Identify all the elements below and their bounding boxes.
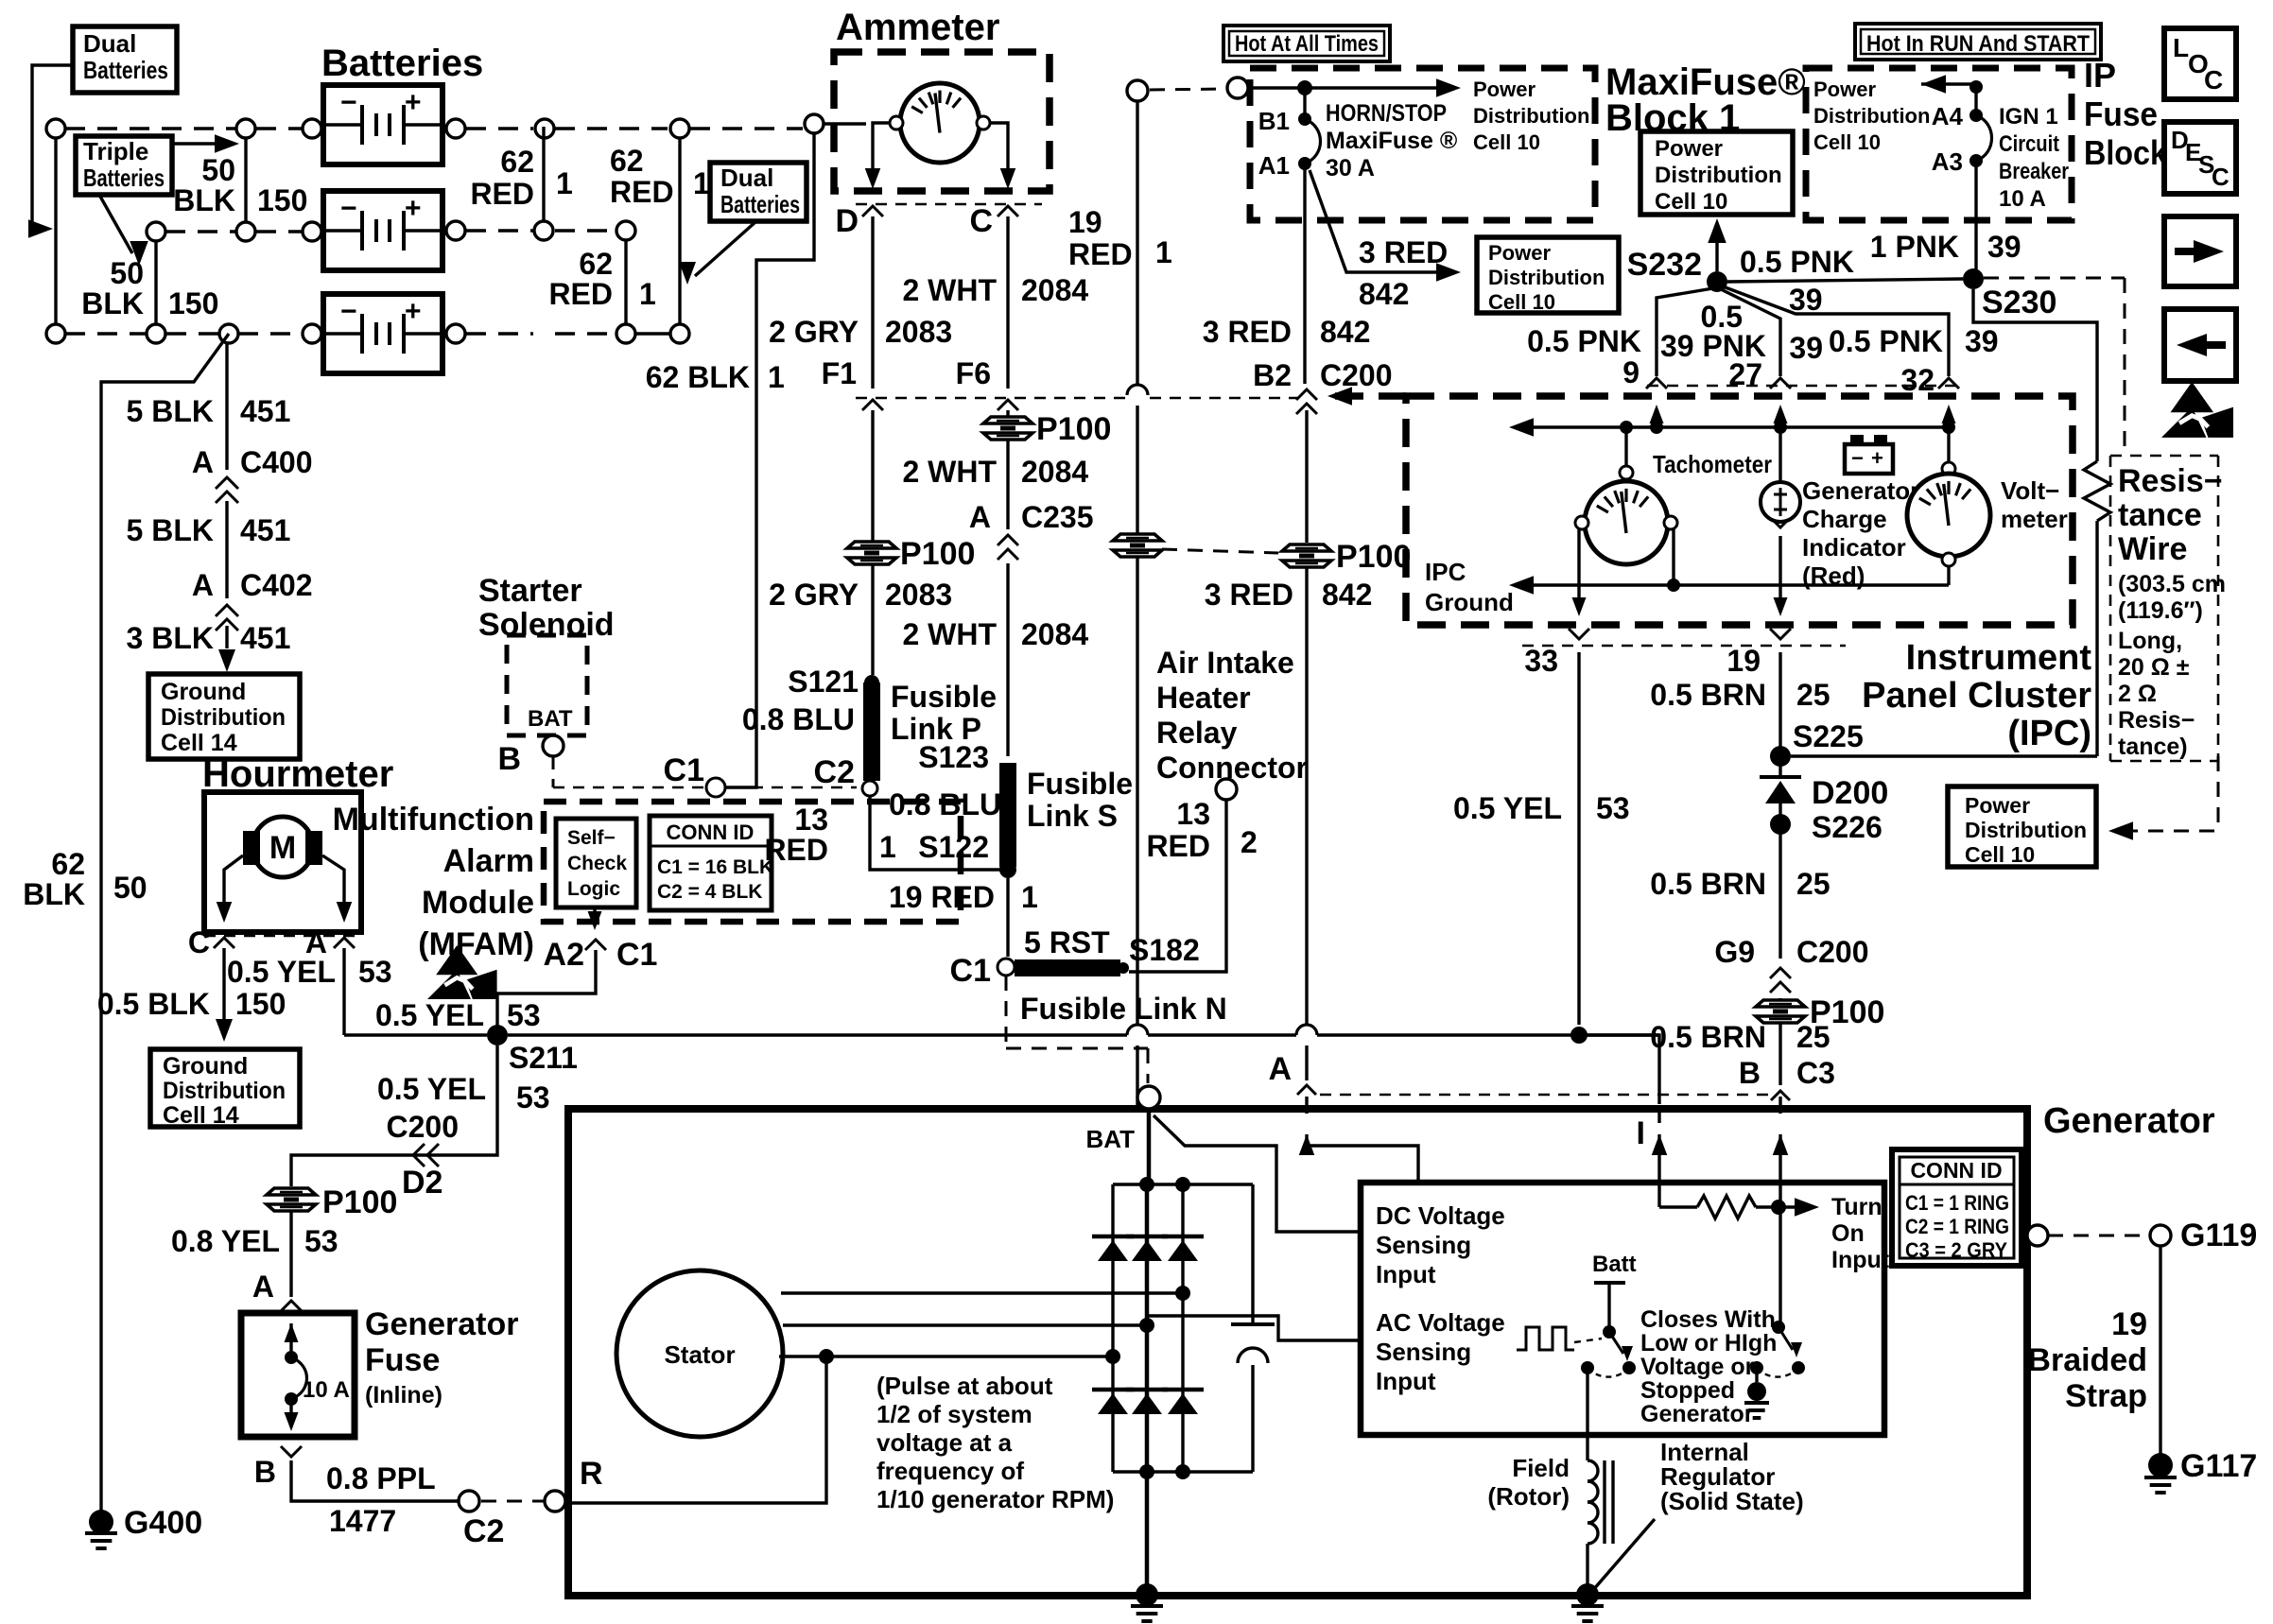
wire 62 RED 1 row1-row2 xyxy=(542,127,545,221)
svg-text:Hot At All Times: Hot At All Times xyxy=(1235,31,1379,57)
svg-text:B: B xyxy=(1739,1056,1761,1090)
wire 33 down to 53 net xyxy=(1570,652,1588,1044)
svg-text:C1: C1 xyxy=(616,937,657,973)
label 50 BLK 150 (upper) xyxy=(173,153,307,217)
svg-text:Sensing: Sensing xyxy=(1376,1338,1471,1366)
label 33 xyxy=(1524,644,1558,678)
wire 0.8 PPL 1477 xyxy=(291,1460,458,1501)
svg-text:tance: tance xyxy=(2118,497,2202,533)
label 0.5 BRN 25 (1) xyxy=(1650,678,1830,712)
svg-text:IGN 1: IGN 1 xyxy=(1999,104,2058,130)
svg-text:C: C xyxy=(2204,65,2223,95)
svg-text:D200: D200 xyxy=(1812,775,1888,811)
svg-text:19: 19 xyxy=(1726,644,1761,678)
svg-text:2 GRY: 2 GRY xyxy=(769,578,859,612)
svg-text:C1: C1 xyxy=(664,752,704,788)
connector chevron genfuse B xyxy=(281,1446,302,1457)
svg-text:Fusible Link N: Fusible Link N xyxy=(1020,992,1227,1026)
wire D 2GRY lower xyxy=(871,563,874,675)
wire S232 to 9 xyxy=(1657,288,1713,376)
label 1 PNK 39 xyxy=(1870,230,2021,264)
svg-text:frequency of: frequency of xyxy=(876,1457,1024,1485)
label 19 Braided Strap xyxy=(2027,1306,2147,1414)
generator connector dashed line xyxy=(1320,1094,1770,1097)
label 62 RED 1 (second) xyxy=(548,247,655,311)
label D xyxy=(835,203,859,239)
svg-text:Power: Power xyxy=(1813,78,1876,101)
connector C402 chevrons xyxy=(216,605,238,631)
svg-text:Ground: Ground xyxy=(1425,588,1514,616)
svg-text:RED: RED xyxy=(1146,829,1210,863)
A wire arrow into generator xyxy=(1299,1097,1315,1155)
connector chevrons hourmeter C A xyxy=(214,938,355,948)
label A generator xyxy=(1268,1051,1292,1087)
svg-text:0.5 BRN: 0.5 BRN xyxy=(1650,1020,1766,1054)
svg-text:62: 62 xyxy=(610,144,644,178)
wire D 2GRY upper xyxy=(871,216,874,389)
connector P100 on D wire xyxy=(847,536,975,572)
fusible link N xyxy=(1015,959,1129,976)
svg-text:3 RED: 3 RED xyxy=(1359,235,1448,269)
dc sense wire from BAT xyxy=(1154,1115,1359,1232)
svg-text:Distribution: Distribution xyxy=(161,704,286,731)
ammeter pins xyxy=(890,116,990,130)
svg-text:Voltage or: Voltage or xyxy=(1640,1354,1755,1380)
svg-text:Logic: Logic xyxy=(567,878,620,900)
label Fusible Link N xyxy=(1020,992,1227,1026)
label Batt xyxy=(1592,1252,1637,1277)
svg-text:0.5 YEL: 0.5 YEL xyxy=(377,1072,486,1106)
svg-text:S230: S230 xyxy=(1982,285,2056,320)
wire 62BLK battery to C1 xyxy=(725,134,814,787)
svg-text:I: I xyxy=(1637,1115,1645,1151)
svg-text:Cell 10: Cell 10 xyxy=(1655,189,1727,215)
label Turn On Input xyxy=(1831,1194,1890,1273)
turn on resistor xyxy=(1659,1196,1819,1218)
dashed S230 right xyxy=(1984,278,2125,454)
svg-text:2 WHT: 2 WHT xyxy=(902,617,997,651)
wire X2 3RED 842 upper xyxy=(1303,164,1306,384)
label box Ground Distribution Cell 14 (lower) xyxy=(150,1049,300,1129)
diodes lower xyxy=(1092,1390,1204,1414)
svg-text:Relay: Relay xyxy=(1156,716,1238,750)
label 2 WHT 2084 mid xyxy=(902,455,1088,489)
wire left bus row1-row3 xyxy=(54,138,57,324)
svg-text:2 WHT: 2 WHT xyxy=(902,455,997,489)
hourmeter connector line xyxy=(204,935,361,938)
svg-text:S232: S232 xyxy=(1627,247,1702,283)
arrow into ground box 2 xyxy=(216,1019,233,1042)
label 0.5 YEL 53 (33 wire) xyxy=(1453,791,1630,825)
connector C2 MFAM circle xyxy=(814,754,877,796)
svg-text:39: 39 xyxy=(1987,230,2021,264)
svg-text:P100: P100 xyxy=(322,1184,397,1220)
svg-text:50: 50 xyxy=(113,871,147,905)
svg-text:S182: S182 xyxy=(1129,933,1200,967)
svg-text:Ammeter: Ammeter xyxy=(836,7,999,48)
regulator box xyxy=(1361,1183,1884,1435)
svg-text:62: 62 xyxy=(51,847,85,881)
svg-text:Fusible: Fusible xyxy=(1027,767,1133,801)
svg-text:Circuit: Circuit xyxy=(1999,131,2059,157)
svg-text:C: C xyxy=(188,925,210,959)
label G9 C200 xyxy=(1714,935,1868,969)
wire S232 to 32 xyxy=(1723,286,1949,376)
svg-text:G117: G117 xyxy=(2180,1448,2257,1484)
svg-text:3 BLK: 3 BLK xyxy=(127,621,214,655)
svg-text:0.8 BLU: 0.8 BLU xyxy=(742,702,855,736)
svg-text:0.5 PNK: 0.5 PNK xyxy=(1527,324,1641,358)
svg-text:D2: D2 xyxy=(402,1165,442,1201)
label A C402 xyxy=(192,568,313,602)
svg-text:0.5 YEL: 0.5 YEL xyxy=(1453,791,1562,825)
svg-text:Input: Input xyxy=(1831,1247,1890,1273)
svg-text:Batteries: Batteries xyxy=(321,43,483,84)
wire rectifier to ground xyxy=(1145,1472,1150,1595)
svg-text:(MFAM): (MFAM) xyxy=(418,926,534,962)
svg-text:Module: Module xyxy=(422,885,534,921)
label Instrument Panel Cluster IPC xyxy=(1862,638,2091,753)
svg-text:53: 53 xyxy=(507,998,541,1032)
ammeter dashed box xyxy=(834,52,1050,191)
svg-text:Input: Input xyxy=(1376,1367,1436,1395)
svg-text:C3 = 2 GRY: C3 = 2 GRY xyxy=(1905,1238,2007,1262)
splice S121 xyxy=(788,665,879,699)
generator box xyxy=(568,1109,2027,1596)
splice S230 xyxy=(1963,268,2056,320)
svg-text:Fusible: Fusible xyxy=(891,680,997,714)
svg-text:5 BLK: 5 BLK xyxy=(127,513,214,547)
label 0.8 BLU lower xyxy=(889,787,1001,821)
svg-text:C: C xyxy=(969,203,993,239)
resistor resistance wire xyxy=(2084,461,2110,756)
svg-text:MaxiFuse ®: MaxiFuse ® xyxy=(1326,128,1458,154)
label B genfuse xyxy=(254,1455,276,1489)
stator wires xyxy=(779,1286,1190,1364)
svg-text:P100: P100 xyxy=(1336,539,1411,575)
svg-text:Cell 10: Cell 10 xyxy=(1473,130,1540,154)
svg-text:2084: 2084 xyxy=(1021,617,1088,651)
label 0.8 BLU upper xyxy=(742,702,855,736)
svg-text:2083: 2083 xyxy=(885,578,952,612)
IPC top edge arrow xyxy=(1327,387,1406,406)
B wire arrow xyxy=(1773,1097,1789,1327)
svg-text:0.5 BRN: 0.5 BRN xyxy=(1650,867,1766,901)
connector C2 circle xyxy=(459,1491,504,1549)
svg-text:Self−: Self− xyxy=(567,827,616,849)
fusible link P xyxy=(863,682,880,781)
splice S211 xyxy=(487,1025,578,1075)
svg-text:Tachometer: Tachometer xyxy=(1653,450,1772,478)
svg-text:RED: RED xyxy=(470,177,534,211)
svg-text:842: 842 xyxy=(1322,578,1372,612)
svg-text:53: 53 xyxy=(1596,791,1630,825)
svg-text:10 A: 10 A xyxy=(1999,186,2046,212)
svg-text:39: 39 xyxy=(1789,331,1823,365)
label A C235 xyxy=(969,500,1094,534)
svg-text:0.5 PNK: 0.5 PNK xyxy=(1740,245,1854,279)
label pulse note xyxy=(876,1372,1114,1513)
svg-text:C2 = 1 RING: C2 = 1 RING xyxy=(1905,1215,2009,1238)
wire from Dual Batteries callout xyxy=(28,65,73,238)
svg-text:S122: S122 xyxy=(918,830,989,864)
svg-text:1: 1 xyxy=(1155,235,1172,269)
svg-text:+: + xyxy=(405,193,422,224)
svg-text:(303.5 cm: (303.5 cm xyxy=(2118,571,2226,597)
svg-text:0.5 PNK: 0.5 PNK xyxy=(1829,324,1943,358)
svg-text:BAT: BAT xyxy=(528,706,573,732)
IPC connector line 9 27 32 xyxy=(1647,385,1955,388)
wire C 2WHT upper xyxy=(1006,216,1009,389)
wire 19 down to S225 xyxy=(1778,652,1781,748)
svg-text:+: + xyxy=(1871,446,1883,470)
voltmeter xyxy=(1907,427,1990,585)
svg-text:+: + xyxy=(405,296,422,327)
svg-text:1: 1 xyxy=(693,166,710,200)
label S182 xyxy=(1129,933,1200,967)
svg-text:10 A: 10 A xyxy=(303,1377,350,1403)
wire battery row3 dashed xyxy=(65,332,669,335)
svg-text:2 GRY: 2 GRY xyxy=(769,315,859,349)
label 13 RED 2 xyxy=(1146,797,1257,863)
wire S226 down xyxy=(1778,838,1781,959)
svg-text:C: C xyxy=(2212,163,2230,191)
label 0.5 PNK 39 (S232-S230) xyxy=(1740,245,1854,317)
wire S211 down to D2 corner xyxy=(291,1045,497,1186)
BAT wire xyxy=(1147,1110,1152,1184)
svg-text:F1: F1 xyxy=(822,356,857,390)
svg-text:Cell 14: Cell 14 xyxy=(161,730,237,756)
svg-text:B2: B2 xyxy=(1253,358,1292,392)
svg-text:A: A xyxy=(1268,1051,1292,1087)
connector chevrons 33 19 xyxy=(1569,629,1791,639)
resistance wire callout dashed box xyxy=(2110,456,2218,761)
svg-text:Power: Power xyxy=(1655,136,1723,162)
svg-text:1/10 generator RPM): 1/10 generator RPM) xyxy=(876,1485,1114,1513)
battery B3 xyxy=(323,294,442,373)
label C ammeter xyxy=(969,203,993,239)
connector line F1 F6 xyxy=(856,397,1297,400)
connector D2 chevrons xyxy=(402,1144,442,1201)
connector chevron A gen xyxy=(1297,1085,1316,1095)
wire 62 RED 1 long row1-row3 xyxy=(678,138,681,331)
svg-text:Dual: Dual xyxy=(720,164,773,192)
svg-text:150: 150 xyxy=(235,987,286,1021)
svg-text:2 WHT: 2 WHT xyxy=(902,273,997,307)
svg-text:3 RED: 3 RED xyxy=(1205,578,1293,612)
label 3 RED 842 diag xyxy=(1359,235,1448,311)
label box Hot In RUN And START xyxy=(1855,24,2101,60)
svg-text:C400: C400 xyxy=(240,445,313,479)
svg-text:30 A: 30 A xyxy=(1326,155,1375,181)
svg-text:62: 62 xyxy=(579,247,613,281)
svg-text:Distribution: Distribution xyxy=(1655,163,1782,188)
ESD symbol right xyxy=(2161,382,2233,438)
label R xyxy=(580,1456,603,1492)
node junctions row2 xyxy=(147,221,635,241)
svg-text:Charge: Charge xyxy=(1802,505,1887,533)
node junctions row1 xyxy=(236,114,824,138)
svg-text:Long,: Long, xyxy=(2118,628,2182,654)
svg-text:Batteries: Batteries xyxy=(83,56,168,84)
wire battery row2 dashed xyxy=(165,231,616,232)
switch 2 xyxy=(1744,1321,1805,1418)
wire IGN1 arrow xyxy=(1921,75,1983,115)
pulse wire to R terminal xyxy=(568,1356,826,1503)
label A hourmeter xyxy=(305,925,327,959)
svg-text:Block: Block xyxy=(2084,133,2168,172)
connector P100 on X2 xyxy=(1282,539,1411,575)
wire C2 to S122 xyxy=(870,796,1000,870)
svg-text:451: 451 xyxy=(240,513,290,547)
svg-text:+: + xyxy=(405,87,422,118)
svg-text:Heater: Heater xyxy=(1156,681,1251,715)
svg-text:RED: RED xyxy=(764,833,828,867)
wire A2 to S211 xyxy=(497,950,596,1028)
svg-text:(IPC): (IPC) xyxy=(2007,714,2091,753)
svg-text:Field: Field xyxy=(1512,1454,1570,1482)
diodes upper xyxy=(1092,1236,1204,1261)
svg-text:RED: RED xyxy=(548,277,613,311)
svg-text:−: − xyxy=(340,87,357,118)
wire 53 to generator I xyxy=(1579,1035,1659,1104)
wire C below C235 xyxy=(1006,563,1009,756)
svg-text:BLK: BLK xyxy=(23,877,85,911)
label BAT solenoid xyxy=(528,706,573,732)
I wire arrow xyxy=(1637,1113,1668,1207)
connector chevrons D C xyxy=(862,206,1018,216)
connector chevron genfuse A xyxy=(281,1301,302,1311)
connector P100 (gen fuse wire) xyxy=(267,1184,397,1220)
label BAT xyxy=(1085,1125,1135,1153)
svg-text:voltage at a: voltage at a xyxy=(876,1428,1013,1457)
ac sense wire xyxy=(1147,1316,1361,1340)
wire 1 PNK 39 xyxy=(1974,161,1977,271)
regulator callout line xyxy=(1593,1519,1655,1590)
label 2 WHT 2084 upper xyxy=(902,273,1088,307)
svg-text:Dual: Dual xyxy=(83,29,136,58)
wire C below F6 xyxy=(1006,410,1009,418)
label 19 ipc xyxy=(1726,644,1761,678)
svg-text:150: 150 xyxy=(257,183,307,217)
svg-text:Ground: Ground xyxy=(161,679,246,705)
label 3 BLK 451 xyxy=(127,621,291,655)
diode D200 xyxy=(1760,765,1888,811)
svg-text:P100: P100 xyxy=(1036,411,1111,447)
svg-text:1: 1 xyxy=(1021,880,1038,914)
svg-text:Distribution: Distribution xyxy=(163,1078,286,1104)
svg-text:Distribution: Distribution xyxy=(1813,104,1930,128)
svg-text:19: 19 xyxy=(2111,1306,2147,1342)
label 0.8 YEL 53 xyxy=(171,1224,338,1258)
svg-text:3 RED: 3 RED xyxy=(1203,315,1292,349)
label 0.5 PNK 9 xyxy=(1527,324,1641,389)
label 3 RED 842 below P100 xyxy=(1205,578,1373,612)
svg-text:−: − xyxy=(1851,446,1864,470)
generator fuse element xyxy=(285,1323,350,1431)
svg-text:Power: Power xyxy=(1473,78,1536,101)
svg-text:53: 53 xyxy=(516,1080,550,1114)
svg-text:13: 13 xyxy=(794,803,828,837)
label 0.5 YEL left of S211 wire xyxy=(377,1072,486,1106)
label Resistance Wire text xyxy=(2118,463,2226,760)
fusible link S xyxy=(999,763,1016,867)
svg-text:Check: Check xyxy=(567,853,627,874)
label Field (Rotor) xyxy=(1487,1454,1570,1511)
svg-text:Cell 10: Cell 10 xyxy=(1488,290,1555,314)
wire hot to power dist arrow xyxy=(1248,78,1461,97)
maxifuse block dashed box xyxy=(1250,68,1595,220)
svg-text:(Solid State): (Solid State) xyxy=(1660,1487,1804,1515)
capacitor branch xyxy=(1231,1184,1275,1472)
wire hourmeter A to 53-line xyxy=(342,948,345,1035)
arrow Triple Batteries to wire 150 row2 xyxy=(99,195,148,266)
svg-text:C200: C200 xyxy=(1796,935,1869,969)
label 62 BLK 50 xyxy=(23,847,147,911)
LOC box xyxy=(2164,28,2236,99)
label A genfuse xyxy=(252,1270,274,1304)
svg-text:IPC: IPC xyxy=(1425,558,1466,586)
wire 62 BLK 50 to G400 xyxy=(101,334,229,1513)
svg-text:451: 451 xyxy=(240,621,290,655)
svg-text:A3: A3 xyxy=(1932,147,1963,176)
right arrow box xyxy=(2164,216,2236,286)
svg-text:Stator: Stator xyxy=(664,1340,735,1369)
hop X1 over F line xyxy=(1127,385,1148,395)
svg-text:1: 1 xyxy=(556,166,573,200)
wire battery row1 dashed xyxy=(65,127,803,130)
label box Power Distribution Cell 10 (maxifuse) xyxy=(1640,131,1793,215)
wire X2 3RED 842 lower xyxy=(1305,410,1308,1080)
wire C 2WHT mid xyxy=(1006,439,1009,529)
svg-text:39: 39 xyxy=(1965,324,1999,358)
svg-text:20 Ω ±: 20 Ω ± xyxy=(2118,654,2190,681)
svg-text:A: A xyxy=(969,500,991,534)
svg-text:Generator: Generator xyxy=(1802,476,1919,505)
battery B1 xyxy=(323,85,442,164)
svg-text:S225: S225 xyxy=(1793,719,1864,753)
connector chevron B2 xyxy=(1296,389,1317,414)
label 5 BLK 451 (2) xyxy=(127,513,291,547)
connector chevrons 9 27 32 xyxy=(1646,378,1959,389)
node battery row1 left terminal xyxy=(46,119,65,138)
svg-text:0.5 BRN: 0.5 BRN xyxy=(1650,678,1766,712)
wire S232 to 27 xyxy=(1721,289,1780,376)
svg-text:25: 25 xyxy=(1796,867,1831,901)
label box Ground Distribution Cell 14 (upper) xyxy=(148,674,300,759)
svg-text:HORN/STOP: HORN/STOP xyxy=(1326,100,1447,127)
rectifier columns xyxy=(1113,1184,1183,1472)
svg-text:Cell 10: Cell 10 xyxy=(1965,842,2035,867)
svg-text:0.5 YEL: 0.5 YEL xyxy=(375,998,484,1032)
label Fusible Link S xyxy=(1027,767,1133,833)
MFAM connector line xyxy=(553,786,857,789)
label Fusible Link P xyxy=(891,680,997,746)
dashed C1 to BAT xyxy=(1006,976,1148,1083)
svg-text:1: 1 xyxy=(879,830,896,864)
svg-text:B: B xyxy=(497,741,521,777)
label 13 RED 1 xyxy=(764,803,895,867)
svg-text:Link S: Link S xyxy=(1027,799,1118,833)
connector P100 on C wire xyxy=(983,411,1111,447)
svg-text:0.8 YEL: 0.8 YEL xyxy=(171,1224,280,1258)
label 3 RED 842 vert xyxy=(1203,315,1371,349)
svg-text:Hourmeter: Hourmeter xyxy=(202,753,393,795)
svg-text:1: 1 xyxy=(768,360,785,394)
rectifier top bus xyxy=(1113,1177,1253,1192)
svg-text:AC Voltage: AC Voltage xyxy=(1376,1308,1505,1337)
wire brn to B C3 xyxy=(1778,1023,1781,1085)
